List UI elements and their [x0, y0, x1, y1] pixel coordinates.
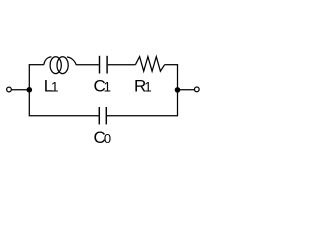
svg-text:C1: C1 [94, 77, 112, 96]
svg-text:C0: C0 [94, 128, 112, 147]
svg-text:L1: L1 [44, 77, 59, 96]
svg-text:R1: R1 [134, 77, 152, 96]
